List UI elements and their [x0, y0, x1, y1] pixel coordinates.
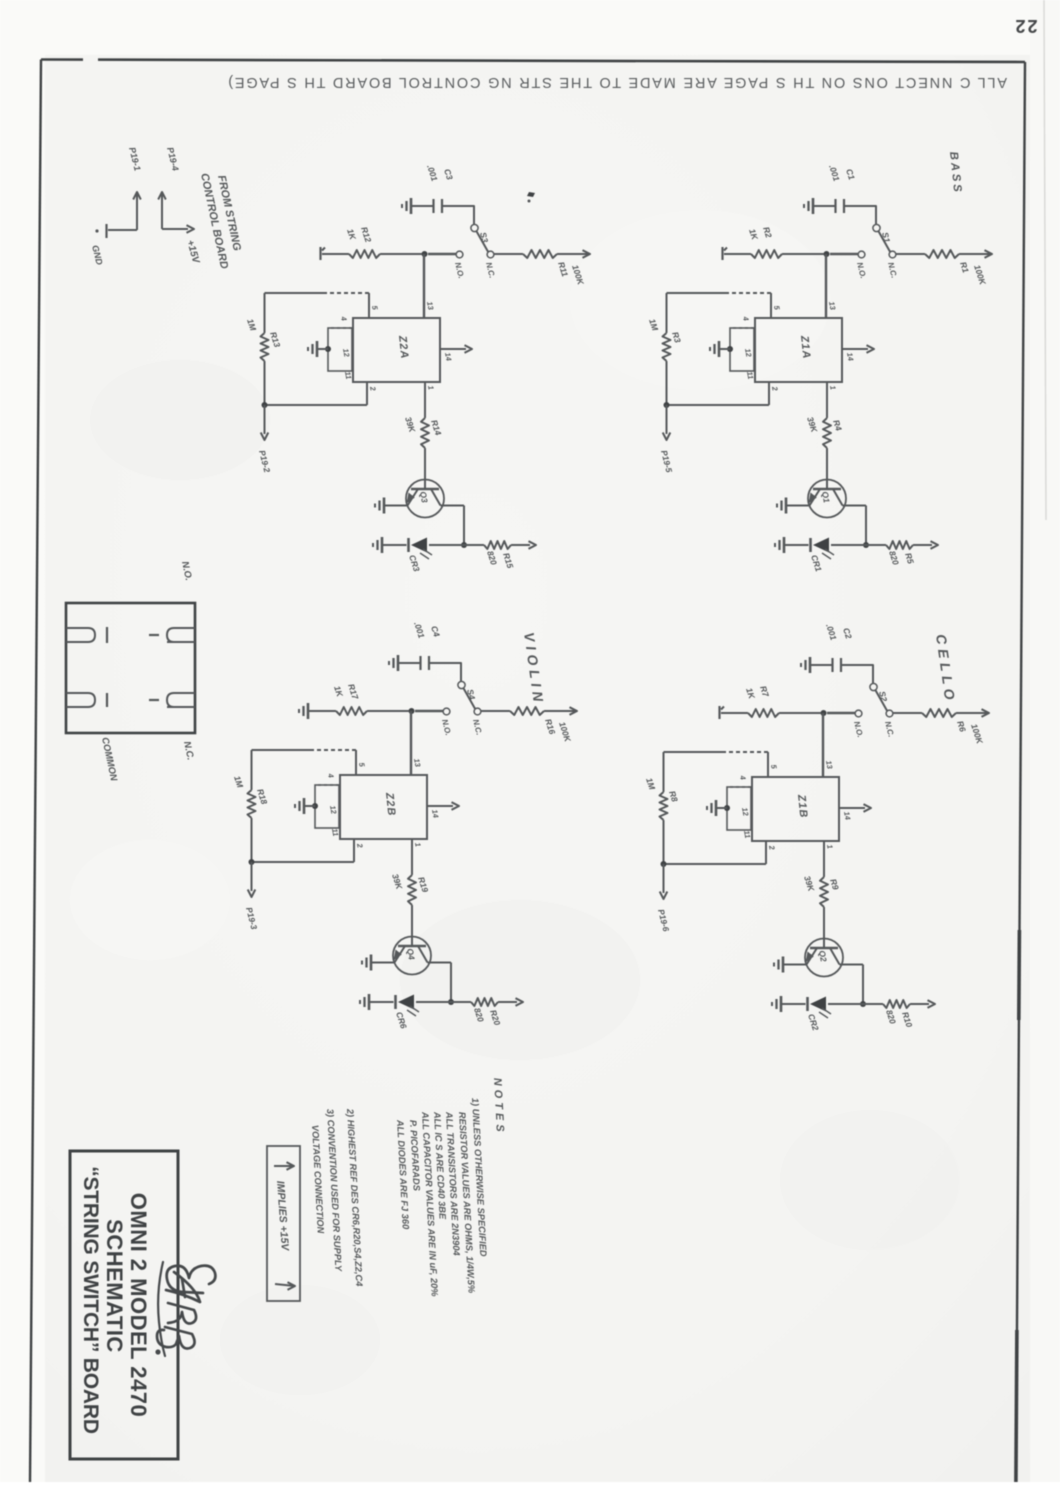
- resistor R13 1M: [264, 293, 266, 333]
- wire pin 5 feedback loop: [770, 293, 772, 318]
- ground (end of resistor): [307, 703, 310, 719]
- resistor R8 1M: [663, 752, 665, 792]
- capacitor C3 .001: [441, 199, 443, 213]
- ground (diode): [368, 994, 371, 1010]
- ground (capacitor): [410, 198, 413, 214]
- resistor R20 820 to +15V: [451, 1001, 471, 1003]
- ground (P19-1): [105, 224, 107, 238]
- +15V T-bar: [319, 247, 321, 260]
- resistor R5 820 to +15V: [866, 544, 886, 546]
- transistor Q1: [808, 480, 846, 518]
- junction node loop/P19-3: [249, 859, 255, 865]
- transistor Q4: [393, 937, 431, 975]
- ground (capacitor): [809, 657, 812, 673]
- switch S3 N.O. contact: [456, 251, 463, 258]
- wire pin 1: [823, 841, 825, 877]
- IC Z2A: [353, 318, 440, 382]
- switch S2 common contact and arm: [870, 683, 877, 690]
- diode CR3: [429, 544, 464, 546]
- wire: [826, 448, 828, 489]
- wire pin 1: [424, 382, 426, 418]
- connector P19-1: [133, 192, 141, 200]
- pin 14 +15V arrow: [839, 807, 865, 809]
- wire pin 5 feedback loop: [355, 750, 357, 775]
- resistor R12 1K to +15V bar: [380, 253, 422, 255]
- diode CR2: [828, 1003, 863, 1005]
- wire: [893, 712, 922, 714]
- wire node to pin 13: [825, 254, 827, 318]
- resistor R9 39K: [820, 877, 828, 907]
- resistor R7 1K to +15V bar: [779, 712, 821, 714]
- switch S1 N.C. contact: [889, 251, 896, 258]
- IC Z2B: [340, 775, 427, 839]
- faint VIOLA label remnant: [527, 192, 535, 197]
- wire common to capacitor C1: [844, 206, 876, 224]
- wire collector to node: [450, 963, 452, 1003]
- node junction: [824, 251, 830, 257]
- switch S3 N.C. contact: [487, 251, 494, 258]
- junction node loop/P19-5: [664, 402, 670, 408]
- junction node loop/P19-2: [262, 402, 268, 408]
- wire common to capacitor C2: [841, 665, 873, 683]
- ground (capacitor): [812, 198, 815, 214]
- junction + ground (unused gates): [724, 805, 730, 811]
- border frame: [41, 60, 1025, 63]
- ground (emitter): [370, 955, 373, 971]
- resistor R1 100K: [925, 250, 959, 258]
- junction node loop/P19-6: [661, 861, 667, 867]
- +15V arrow (R16): [570, 707, 578, 715]
- wire pin 1: [826, 382, 828, 418]
- wire N.O. to node: [428, 253, 456, 255]
- wire node to pin 13: [822, 713, 824, 777]
- switch S1 N.O. contact: [858, 251, 865, 258]
- switch S4 N.C. contact: [474, 708, 481, 715]
- +15V arrow (R11): [583, 250, 591, 258]
- wire: [896, 253, 925, 255]
- wire pin 1: [411, 839, 413, 875]
- diode CR1: [831, 544, 866, 546]
- +15V arrow (R6): [982, 709, 990, 717]
- resistor R18 1M: [251, 750, 253, 790]
- wire loop right side to pin: [667, 404, 770, 406]
- collector junction node: [461, 542, 467, 548]
- wire emitter to ground: [786, 505, 810, 507]
- switch S2 N.O. contact: [855, 710, 862, 717]
- resistor R10 820 to +15V: [863, 1003, 883, 1005]
- connector arrow P19-6: [663, 864, 665, 893]
- junction + ground (unused gates): [325, 346, 331, 352]
- wire: [494, 253, 523, 255]
- +15V arrow symbol (right): [288, 1282, 296, 1290]
- collector junction node: [863, 542, 869, 548]
- pin 14 +15V arrow: [427, 805, 453, 807]
- node junction: [422, 251, 428, 257]
- capacitor C1 .001: [843, 199, 845, 213]
- transistor Q3: [406, 480, 444, 518]
- ground (diode): [780, 996, 783, 1012]
- resistor R6 100K: [922, 709, 956, 717]
- svg-text:Q4: Q4: [405, 948, 417, 961]
- unused gates box: [730, 328, 754, 371]
- wire collector to node: [862, 965, 864, 1005]
- collector junction node: [860, 1001, 866, 1007]
- svg-text:“STRING SWITCH” BOARD: “STRING SWITCH” BOARD: [79, 1166, 102, 1434]
- junction + ground (unused gates): [312, 803, 318, 809]
- node junction: [409, 708, 415, 714]
- svg-text:Q1: Q1: [820, 491, 832, 504]
- wire loop right side to pin: [664, 863, 767, 865]
- resistor R4 39K: [823, 418, 831, 448]
- svg-text:SCHEMATIC: SCHEMATIC: [102, 1219, 127, 1353]
- svg-text:11: 11: [330, 828, 340, 837]
- svg-text:11: 11: [742, 830, 752, 839]
- junction + ground (unused gates): [727, 346, 733, 352]
- connector arrow P19-5: [666, 405, 668, 434]
- svg-text:Q3: Q3: [418, 491, 430, 504]
- svg-text:11: 11: [343, 371, 353, 380]
- pin 14 +15V arrow: [440, 348, 466, 350]
- implies +15V box: [267, 1146, 300, 1301]
- connector arrow P19-2: [264, 405, 266, 434]
- wire N.O. to node: [827, 712, 855, 714]
- switch S2 N.C. contact: [886, 710, 893, 717]
- svg-text:11: 11: [745, 371, 755, 380]
- wire common to capacitor C3: [442, 206, 474, 224]
- resistor R19 39K: [408, 875, 416, 905]
- diode CR6: [416, 1001, 451, 1003]
- connector arrow P19-3: [251, 862, 253, 891]
- wire: [424, 448, 426, 489]
- ground (capacitor): [397, 655, 400, 671]
- IC Z1B: [752, 777, 839, 841]
- resistor R17 1K to +15V bar: [367, 710, 409, 712]
- wire pin 5 feedback loop: [368, 293, 370, 318]
- resistor R14 39K: [421, 418, 429, 448]
- wire N.O. to node: [830, 253, 858, 255]
- wire: [481, 710, 510, 712]
- wire: [823, 907, 825, 948]
- ground (emitter): [785, 498, 788, 514]
- ground (diode): [783, 537, 786, 553]
- wire loop right side to pin: [265, 404, 368, 406]
- title block: [70, 1151, 178, 1459]
- wire collector to node: [463, 506, 465, 546]
- connector P19-4: [158, 192, 166, 200]
- wire common to capacitor C4: [429, 663, 461, 681]
- resistor R2 1K to +15V bar: [782, 253, 824, 255]
- ground (diode): [381, 537, 384, 553]
- +15V T-bar: [721, 247, 723, 260]
- ground (emitter): [383, 498, 386, 514]
- svg-text:Q2: Q2: [817, 950, 829, 963]
- ground (emitter): [782, 957, 785, 973]
- wire node to pin 13: [423, 254, 425, 318]
- svg-text:OMNI 2 MODEL 2470: OMNI 2 MODEL 2470: [126, 1193, 151, 1418]
- capacitor C2 .001: [840, 658, 842, 672]
- resistor R3 1M: [666, 293, 668, 333]
- collector junction node: [448, 999, 454, 1005]
- switch S1 common contact and arm: [873, 224, 880, 231]
- switch detail slots: [66, 628, 95, 642]
- transistor Q2: [805, 939, 843, 977]
- unused gates box: [727, 787, 751, 830]
- resistor R11 100K: [523, 250, 557, 258]
- page edge shadow: [1044, 0, 1046, 520]
- wire collector to node: [865, 506, 867, 546]
- resistor R16 100K: [510, 707, 544, 715]
- +15V arrow (R1): [985, 250, 993, 258]
- pin 14 +15V arrow: [842, 348, 868, 350]
- wire node to pin 13: [410, 711, 412, 775]
- wire N.O. to node: [415, 710, 443, 712]
- svg-text:ALL C NNECT ONS ON TH S PAGE A: ALL C NNECT ONS ON TH S PAGE ARE MADE TO…: [226, 74, 1007, 90]
- +15V arrow (P19-4): [187, 225, 195, 233]
- node junction: [821, 710, 827, 716]
- contact marks: [106, 627, 108, 643]
- wire: [411, 905, 413, 946]
- +15V T-bar: [718, 706, 720, 719]
- wire emitter to ground: [783, 964, 807, 966]
- ARP logo: [157, 1262, 215, 1356]
- wire pin 5 feedback loop: [767, 752, 769, 777]
- +15V arrow symbol (left): [287, 1162, 295, 1170]
- switch S4 common contact and arm: [458, 681, 465, 688]
- IC Z1A: [755, 318, 842, 382]
- switch S4 N.O. contact: [443, 708, 450, 715]
- wire emitter to ground: [384, 505, 408, 507]
- resistor R15 820 to +15V: [464, 544, 484, 546]
- switch S3 common contact and arm: [471, 224, 478, 231]
- wire emitter to ground: [371, 962, 395, 964]
- capacitor C4 .001: [428, 656, 430, 670]
- unused gates box: [315, 785, 339, 828]
- svg-text:22: 22: [1013, 16, 1037, 36]
- unused gates box: [328, 328, 352, 371]
- wire loop right side to pin: [252, 861, 355, 863]
- switch detail box: [66, 603, 195, 733]
